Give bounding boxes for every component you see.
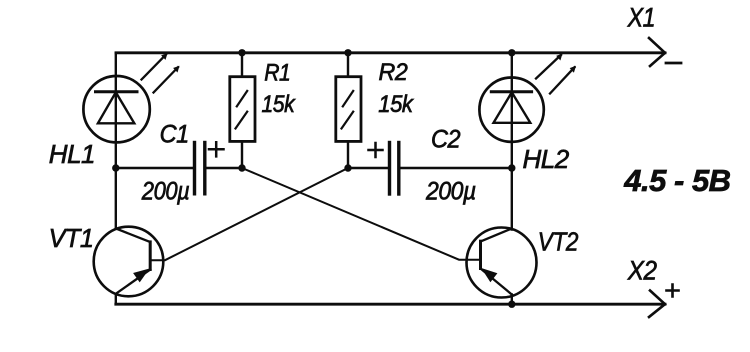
svg-text:VT1: VT1 <box>49 225 94 253</box>
svg-text:C2: C2 <box>431 126 461 154</box>
capacitor C2 <box>390 143 399 195</box>
terminal X1 arrow <box>649 38 665 66</box>
wire top rail (X1 net) <box>116 51 665 54</box>
wire left column (HL1 anode/collector net) <box>115 53 117 229</box>
capacitor C1 plus sign <box>209 142 224 156</box>
terminal X2 arrow <box>649 291 665 318</box>
svg-text:HL2: HL2 <box>523 144 570 174</box>
svg-text:15k: 15k <box>262 91 297 118</box>
LED HL1 <box>83 76 149 142</box>
polarity plus at X2 <box>667 285 679 297</box>
svg-text:200µ: 200µ <box>141 177 190 205</box>
svg-text:C1: C1 <box>160 121 189 149</box>
svg-text:15k: 15k <box>378 90 414 117</box>
capacitor C2 wire left <box>348 167 388 169</box>
junction node top of R1 <box>238 49 245 56</box>
resistor R2 <box>336 77 361 142</box>
resistor R1 <box>230 77 255 142</box>
svg-text:R1: R1 <box>264 59 290 86</box>
VT1 emitter wire to bottom rail <box>115 294 117 304</box>
svg-text:VT2: VT2 <box>538 228 579 257</box>
junction node R2/C2 <box>344 164 351 171</box>
HL1 light emission arrows <box>142 53 180 92</box>
resistor R2 lead top <box>347 53 349 77</box>
wire bottom rail (X2 net) <box>116 303 665 306</box>
svg-text:R2: R2 <box>379 60 408 86</box>
svg-text:X2: X2 <box>627 256 657 285</box>
svg-text:X1: X1 <box>627 3 655 33</box>
cross wire from R1 node to VT2 base <box>242 168 481 260</box>
HL2 light emission arrows <box>536 54 576 94</box>
junction node top of HL2 <box>508 49 515 56</box>
capacitor C1 <box>195 143 205 194</box>
junction node HL1/C1 <box>112 164 119 171</box>
junction node top of R2 <box>344 49 351 56</box>
transistor VT1 <box>94 227 164 297</box>
capacitor C1 wire right <box>207 167 243 169</box>
VT2 emitter wire to bottom rail <box>511 295 513 305</box>
resistor R1 lead bottom <box>241 141 243 168</box>
capacitor C2 plus sign <box>369 143 383 157</box>
svg-text:HL1: HL1 <box>49 139 95 169</box>
polarity minus at X1 <box>666 62 681 65</box>
resistor R1 lead top <box>241 53 243 77</box>
wire HL2 column top <box>511 53 513 230</box>
transistor VT2 <box>467 228 537 298</box>
junction node VT2 emitter on bottom rail <box>508 301 515 308</box>
junction node R1/C1 <box>238 164 245 171</box>
capacitor C1 wire left <box>116 167 193 169</box>
LED HL2 <box>479 78 543 142</box>
svg-text:200µ: 200µ <box>425 178 476 206</box>
svg-text:4.5 - 5В: 4.5 - 5В <box>623 163 730 198</box>
resistor R2 lead bottom <box>347 141 349 168</box>
capacitor C2 wire right <box>401 167 512 169</box>
junction node HL2/C2 <box>508 164 515 171</box>
cross wire from R2 node to VT1 base <box>150 168 348 260</box>
